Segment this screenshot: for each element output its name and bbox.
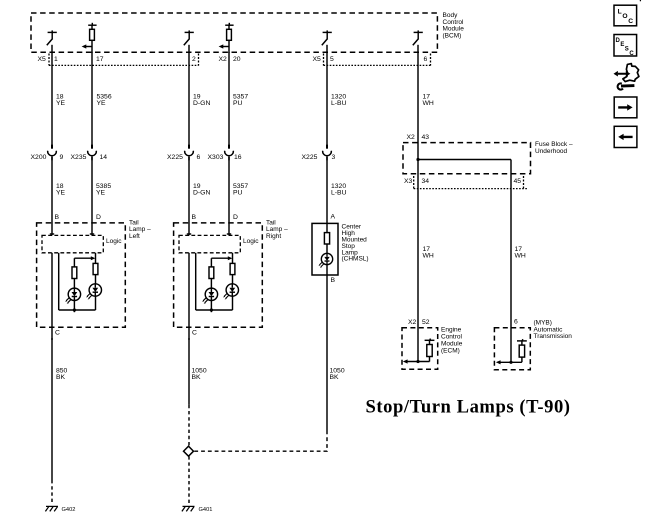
svg-text:X5: X5 [38, 56, 47, 63]
svg-text:L: L [618, 8, 622, 15]
svg-text:9: 9 [60, 154, 64, 161]
svg-text:17: 17 [96, 56, 104, 63]
svg-text:BK: BK [330, 374, 340, 381]
svg-text:X225: X225 [167, 154, 183, 161]
svg-text:B: B [55, 214, 60, 221]
svg-text:(ECM): (ECM) [441, 348, 460, 355]
svg-text:Stop/Turn Lamps (T-90): Stop/Turn Lamps (T-90) [366, 397, 571, 418]
svg-text:(MYB): (MYB) [534, 319, 552, 326]
svg-text:6: 6 [514, 319, 518, 326]
svg-text:Right: Right [266, 233, 281, 240]
svg-text:X235: X235 [71, 154, 87, 161]
svg-text:X2: X2 [219, 56, 228, 63]
svg-text:L-BU: L-BU [331, 190, 347, 197]
svg-text:BK: BK [192, 374, 202, 381]
svg-text:2: 2 [192, 56, 196, 63]
svg-text:43: 43 [422, 134, 430, 141]
svg-text:20: 20 [233, 56, 241, 63]
svg-text:3: 3 [332, 154, 336, 161]
svg-text:6: 6 [424, 56, 428, 63]
svg-text:BK: BK [56, 374, 66, 381]
svg-text:Transmission: Transmission [534, 333, 573, 340]
svg-text:5: 5 [330, 56, 334, 63]
svg-text:PU: PU [233, 100, 243, 107]
svg-text:PU: PU [233, 190, 243, 197]
svg-text:A: A [331, 214, 336, 221]
svg-text:6: 6 [197, 154, 201, 161]
svg-text:34: 34 [422, 178, 430, 185]
svg-text:X303: X303 [208, 154, 224, 161]
svg-text:C: C [629, 51, 634, 57]
svg-text:B: B [192, 214, 197, 221]
svg-text:C: C [628, 18, 633, 25]
svg-text:Module: Module [441, 341, 463, 348]
svg-text:G402: G402 [62, 507, 76, 513]
svg-text:(BCM): (BCM) [443, 32, 462, 39]
svg-text:B: B [331, 277, 336, 284]
svg-text:G401: G401 [199, 507, 213, 513]
svg-text:X5: X5 [313, 56, 322, 63]
svg-text:(CHMSL): (CHMSL) [342, 256, 369, 263]
svg-text:YE: YE [97, 100, 107, 107]
svg-text:Underhood: Underhood [535, 148, 568, 155]
svg-text:45: 45 [514, 178, 522, 185]
svg-text:D-GN: D-GN [193, 190, 210, 197]
svg-text:C: C [55, 330, 60, 337]
svg-text:O: O [622, 13, 627, 20]
svg-text:L-BU: L-BU [331, 100, 347, 107]
svg-text:X200: X200 [31, 154, 47, 161]
svg-text:WH: WH [515, 253, 526, 260]
svg-text:YE: YE [56, 100, 66, 107]
svg-text:X225: X225 [302, 154, 318, 161]
svg-text:16: 16 [234, 154, 242, 161]
svg-text:WH: WH [423, 100, 434, 107]
svg-text:YE: YE [56, 190, 66, 197]
svg-text:WH: WH [423, 253, 434, 260]
svg-text:Control: Control [441, 334, 463, 341]
svg-text:X3: X3 [404, 178, 413, 185]
svg-text:C: C [192, 330, 197, 337]
svg-text:D: D [96, 214, 101, 221]
svg-text:Engine: Engine [441, 327, 462, 334]
svg-text:Logic: Logic [106, 238, 122, 245]
svg-text:S: S [625, 46, 629, 52]
svg-text:1: 1 [54, 56, 58, 63]
svg-text:X2: X2 [408, 319, 417, 326]
svg-text:52: 52 [422, 319, 430, 326]
svg-text:YE: YE [96, 190, 106, 197]
svg-text:D: D [233, 214, 238, 221]
svg-text:D-GN: D-GN [193, 100, 210, 107]
svg-text:14: 14 [100, 154, 108, 161]
svg-text:Left: Left [129, 233, 140, 240]
svg-text:X2: X2 [407, 134, 416, 141]
